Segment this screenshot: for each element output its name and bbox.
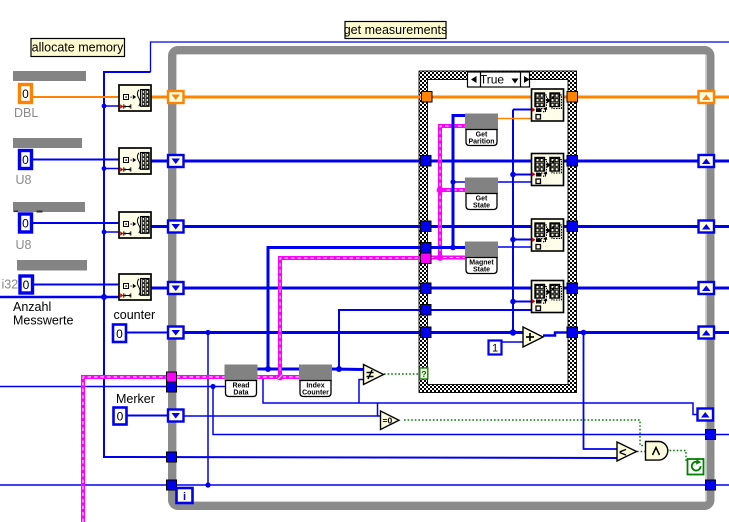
tunnel loop-right y485 — [706, 480, 716, 490]
svg-text:Magnet: Magnet — [469, 260, 494, 267]
wire row3 U8 array — [151, 225, 729, 228]
tunnel case-right row1 orange — [567, 92, 578, 103]
svg-text:Merker: Merker — [116, 392, 155, 406]
svg-text:Index: Index — [306, 383, 324, 390]
shift register left Merker — [168, 410, 184, 422]
constant counter 0 — [113, 325, 126, 343]
case structure border — [419, 71, 577, 393]
label i32 — [2, 278, 19, 292]
control terminal U8 second — [20, 214, 32, 232]
subVI Magnet State — [466, 242, 498, 274]
svg-text:=0: =0 — [383, 416, 393, 426]
shift register left counter — [168, 327, 184, 339]
node counter branch junctions — [205, 330, 210, 488]
shift register right row1 — [699, 91, 715, 103]
svg-text:0: 0 — [22, 153, 29, 167]
wire row2 U8 scalar — [32, 159, 120, 161]
shift register left row4 — [168, 282, 184, 294]
wire bottom row y485 — [0, 484, 729, 486]
shift register left row3 — [168, 221, 184, 233]
control terminal U8 first — [20, 151, 32, 169]
shift register right row4 — [699, 282, 715, 294]
tunnel loop-left y457 — [167, 452, 177, 462]
node blue cluster junctions — [450, 179, 456, 250]
control terminal i32 — [20, 276, 33, 293]
shift register right row3 — [699, 221, 715, 233]
svg-text:0: 0 — [117, 410, 124, 424]
svg-text:0: 0 — [23, 278, 30, 292]
svg-text:?: ? — [421, 369, 426, 379]
function add — [523, 327, 543, 347]
wire row1 DBL scalar — [32, 96, 120, 98]
tunnel case-right row2 — [567, 156, 578, 167]
tunnel case-right counter row — [567, 327, 578, 338]
hidden label bar 1 — [13, 71, 86, 81]
tunnel loop-left y485 — [167, 480, 177, 490]
svg-text:Get: Get — [476, 196, 488, 203]
iteration terminal i — [177, 488, 193, 503]
svg-text:0: 0 — [22, 87, 29, 101]
svg-text:Parition: Parition — [468, 139, 494, 146]
case selector terminal — [420, 368, 428, 379]
subVI Read Data — [225, 365, 257, 397]
svg-text:1: 1 — [492, 343, 498, 355]
wire magenta branch up into case — [280, 258, 421, 377]
wire magenta cluster from bottom left — [83, 377, 167, 522]
hidden label bar 3 — [13, 202, 85, 213]
tunnel case-left counter row — [421, 327, 432, 338]
function equal-zero — [381, 411, 400, 430]
svg-text:Anzahl: Anzahl — [13, 300, 51, 314]
wire row4 i32 scalar — [33, 284, 120, 286]
function init array 4 Initialize Array — [119, 274, 151, 300]
node junction 213,386 — [210, 384, 215, 389]
wire cluster-array branch up into case — [268, 248, 421, 370]
function RAS2 Replace Array Subset — [532, 154, 564, 186]
tunnel case-right row4 — [567, 283, 578, 294]
tunnel loop-right y434 — [706, 430, 716, 440]
wire counter branch down to bottom tunnel — [207, 333, 209, 486]
wire row310 inside case — [430, 309, 532, 311]
wire boolean and to loop condition — [670, 451, 689, 462]
node magenta junctions on vertical — [437, 187, 444, 261]
svg-text:U8: U8 — [16, 173, 32, 187]
tunnel case-left row3 — [421, 221, 432, 232]
subVI Get State — [466, 178, 498, 210]
function and-gate — [646, 442, 668, 461]
wire branch to y434 row — [213, 387, 729, 435]
subVI Index Counter — [300, 365, 332, 397]
shift register right row2 — [699, 155, 715, 167]
wire index feeder vertical x513 — [513, 110, 532, 333]
function init array 3 Initialize Array — [119, 212, 151, 238]
svg-text:True: True — [480, 73, 505, 87]
label U8 first — [16, 173, 32, 187]
svg-text:DBL: DBL — [14, 106, 38, 120]
tunnel loop-left magenta — [167, 372, 177, 382]
wire index counter output y369 — [331, 368, 363, 372]
node junction 339,369 — [336, 366, 342, 372]
label Anzahl Messwerte — [13, 300, 73, 328]
svg-text:0: 0 — [116, 327, 123, 341]
tunnel case-left row4 — [421, 283, 432, 294]
wire branch row310 into case — [339, 310, 421, 369]
svg-text:counter: counter — [114, 308, 156, 322]
wire plus output vertical to less-than — [584, 333, 618, 450]
hidden label bar 4 — [17, 260, 87, 271]
wire read data second output y403 — [257, 377, 698, 417]
control terminal DBL — [20, 85, 32, 103]
tunnel loop-left blue y386 — [167, 382, 177, 392]
wire magenta read data to index counter — [257, 375, 301, 379]
svg-text:State: State — [473, 203, 490, 210]
wire get state output — [497, 181, 532, 183]
tunnel case-left row1 orange — [422, 92, 433, 103]
shift register left row2 — [168, 155, 184, 167]
loop condition terminal — [688, 459, 704, 475]
svg-text:Messwerte: Messwerte — [13, 314, 73, 328]
function RAS1 Replace Array Subset — [532, 89, 564, 121]
node junction 584,332 — [581, 330, 587, 336]
wire one constant to add — [502, 341, 523, 343]
wire boolean not-equal to selector — [384, 373, 420, 375]
label allocate memory — [31, 39, 125, 57]
svg-text:allocate memory: allocate memory — [32, 41, 124, 55]
wire Merker row — [127, 415, 380, 418]
node index feeder junctions — [510, 172, 516, 336]
tunnel case-right row3 — [567, 221, 578, 232]
wire boolean equal-zero to and — [404, 420, 645, 446]
tunnel case-left magenta y258 — [421, 253, 432, 264]
svg-text:i: i — [183, 491, 186, 503]
wire row3 U8 scalar — [32, 222, 120, 224]
hidden label bar 2 — [13, 138, 82, 148]
wire dimension bus — [0, 72, 617, 458]
node magenta junction 280,377 — [277, 374, 284, 381]
wire read data lower input y386 — [0, 386, 225, 388]
svg-text:Get: Get — [476, 132, 488, 139]
node junction 268,369 — [265, 366, 271, 372]
wire magnet state output — [498, 246, 532, 248]
function init array 2 Initialize Array — [119, 148, 151, 174]
svg-text:0: 0 — [22, 217, 29, 231]
case selector label True — [468, 72, 530, 87]
function RAS3 Replace Array Subset — [532, 219, 564, 251]
svg-text:<: < — [619, 445, 627, 460]
wire row2 U8 array — [151, 160, 729, 163]
tunnel case-left row310 — [421, 305, 432, 316]
function init array 1 Initialize Array — [119, 85, 151, 111]
svg-text:get measurements: get measurements — [344, 23, 448, 37]
wire magenta into read data — [177, 375, 226, 379]
svg-text:Read: Read — [232, 383, 249, 390]
wire row4 i32 array — [151, 287, 729, 290]
svg-text:Counter: Counter — [302, 390, 329, 397]
wire top dimension net horizontal y42 — [151, 42, 729, 72]
wire read data thick output y369 — [257, 368, 301, 371]
label get measurements — [344, 22, 448, 39]
shift register left row1 — [168, 91, 184, 103]
wire counter row — [126, 333, 729, 336]
wire get parition orange output — [498, 118, 532, 120]
label DBL — [14, 106, 38, 120]
wire row1 DBL array — [151, 96, 729, 99]
label counter — [114, 308, 156, 322]
tunnel case-left row2 — [421, 156, 432, 167]
wire boolean less-than to and — [637, 451, 645, 453]
svg-text:U8: U8 — [16, 238, 32, 252]
wire blue cluster inside case — [430, 116, 467, 248]
svg-text:i32: i32 — [2, 278, 19, 292]
label U8 second — [16, 238, 32, 252]
node bus junctions — [101, 104, 107, 300]
while loop border — [172, 50, 711, 506]
shift register right Merker — [698, 409, 714, 421]
subVI Get Parition — [466, 114, 498, 146]
function RAS4 Replace Array Subset — [532, 281, 564, 313]
function less-than — [617, 442, 637, 461]
shift register right counter — [699, 327, 715, 339]
function not-equal — [364, 365, 384, 385]
svg-text:Data: Data — [233, 390, 248, 397]
wire magenta inside case — [430, 126, 467, 258]
constant 1 — [489, 341, 502, 355]
svg-text:State: State — [473, 267, 490, 274]
tunnel case-left blue cluster y247 — [421, 243, 432, 254]
constant Merker 0 — [114, 408, 127, 425]
label Merker — [116, 392, 155, 406]
